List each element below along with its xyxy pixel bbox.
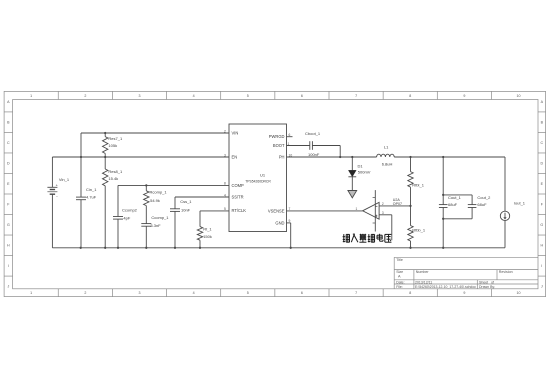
svg-text:Size: Size: [396, 270, 403, 274]
svg-text:Rt_1: Rt_1: [203, 226, 212, 231]
svg-text:G: G: [540, 223, 543, 227]
capacitor Ccomp_1 3.3nF: [141, 215, 169, 248]
svg-text:Iout_1: Iout_1: [514, 201, 526, 206]
U1 pin name EN: [232, 155, 238, 160]
wire RT/CLK net: [200, 211, 229, 227]
svg-text:Css_1: Css_1: [180, 199, 192, 204]
U2A output pin number 1: [356, 207, 358, 211]
wire PH net: [287, 156, 377, 158]
U1 pin name PH: [279, 155, 285, 160]
svg-text:1: 1: [356, 207, 358, 211]
svg-text:2013/12/11: 2013/12/11: [415, 280, 432, 284]
svg-text:54.9k: 54.9k: [150, 198, 160, 203]
wire VIN net top: [81, 133, 229, 157]
wire EN net: [52, 156, 229, 158]
svg-text:C: C: [7, 141, 10, 145]
svg-text:VIN: VIN: [232, 131, 239, 136]
svg-text:3.3nF: 3.3nF: [150, 223, 161, 228]
svg-text:RT/CLK: RT/CLK: [232, 208, 247, 213]
op-amp U2A OP07: [363, 190, 402, 231]
capacitor Cboot_1 100nF: [287, 131, 341, 157]
svg-text:Drawn By:: Drawn By:: [479, 285, 495, 289]
svg-text:2: 2: [382, 202, 384, 206]
svg-text:D: D: [7, 162, 10, 166]
U1 pin number 4: [224, 193, 226, 197]
svg-text:3: 3: [138, 291, 140, 295]
svg-text:Date:: Date:: [396, 280, 404, 284]
U1 pin number 6: [289, 133, 291, 137]
U1 pin number 8: [224, 182, 226, 186]
resistor Rcomp_1 54.9k: [144, 185, 168, 223]
resistor Rt_1 150k: [197, 226, 212, 247]
junction node EN/Cin: [80, 156, 82, 158]
U1 pin name VIN: [232, 131, 239, 136]
capacitor Cout_2 68uF: [443, 195, 491, 219]
svg-text:9: 9: [463, 291, 465, 295]
svg-text:H: H: [540, 244, 543, 248]
net label 输入基准电压 (input reference voltage): [343, 234, 392, 242]
svg-text:Sheet of: Sheet of: [479, 280, 494, 284]
svg-text:7: 7: [289, 207, 291, 211]
sheet border frame: [4, 91, 546, 296]
U1 pin name PWRGD: [269, 134, 285, 139]
wire VSENSE net to op-amp: [287, 210, 363, 212]
svg-text:Cout_1: Cout_1: [448, 195, 462, 200]
svg-text:Title: Title: [396, 258, 403, 262]
junction on ground rail at Rt: [199, 247, 201, 249]
svg-text:3: 3: [138, 94, 140, 98]
resistor Res8_1 15.4k: [103, 157, 123, 248]
U1 pin number 10: [289, 153, 293, 157]
svg-text:500mV: 500mV: [358, 169, 371, 174]
svg-text:68uF: 68uF: [448, 202, 458, 207]
U1 pin number 5: [224, 207, 226, 211]
resistor Res7_1 105k: [103, 133, 123, 157]
op IC U1 TPS54260DRCR body: [229, 124, 287, 232]
power ground symbol below D1: [348, 191, 357, 198]
svg-text:4: 4: [193, 94, 195, 98]
U1 pin number 1: [288, 142, 290, 146]
svg-text:100nF: 100nF: [308, 152, 320, 157]
svg-text:Ccomp_1: Ccomp_1: [151, 215, 169, 220]
resistor Rfbt_1: [408, 157, 425, 206]
wire Vout net: [394, 156, 505, 158]
svg-text:File:: File:: [396, 285, 403, 289]
junction on ground rail at Cout: [442, 247, 444, 249]
svg-text:Revision: Revision: [499, 270, 513, 274]
svg-text:Rcomp_1: Rcomp_1: [150, 189, 168, 194]
U1 pin name GND: [275, 220, 284, 225]
svg-text:SS/TR: SS/TR: [232, 195, 244, 200]
svg-text:Cout_2: Cout_2: [477, 195, 491, 200]
svg-text:TPS54260DRCR: TPS54260DRCR: [245, 179, 271, 184]
junction node Cout2 bottom: [442, 218, 444, 220]
junction node EN/Res8: [104, 156, 106, 158]
U1 pin name BOOT: [273, 143, 285, 148]
svg-text:BOOT: BOOT: [273, 143, 285, 148]
junction node VIN/Res7: [104, 132, 106, 134]
junction node Cout2 top: [442, 194, 444, 196]
svg-text:D1: D1: [358, 163, 364, 168]
svg-text:D: D: [540, 162, 543, 166]
wire U2A pin2 to feedback node: [379, 205, 410, 207]
U1 pin name VSENSE: [268, 208, 285, 213]
capacitor Cout_1 68uF: [439, 157, 462, 248]
svg-text:3: 3: [382, 211, 384, 215]
svg-text:Res8_1: Res8_1: [108, 169, 123, 174]
svg-text:Ccomp2: Ccomp2: [122, 208, 138, 213]
current source Iout_1: [500, 157, 525, 248]
junction on ground rail at Res8: [104, 247, 106, 249]
svg-text:150k: 150k: [203, 234, 212, 239]
U2A pin 8 tick: [373, 197, 376, 199]
junction node Vout/Cout: [442, 156, 444, 158]
junction on ground rail at Ccomp_1: [145, 247, 147, 249]
wire U2A pin3 to reference label: [379, 215, 392, 241]
wire U1 GND pin to rail: [287, 223, 291, 248]
U1 pin number 9: [289, 219, 291, 223]
junction on ground rail at Ccomp2: [117, 247, 119, 249]
svg-text:7: 7: [355, 291, 357, 295]
junction node COMP/Rcomp: [145, 184, 147, 186]
U1 pin number 3: [224, 153, 226, 157]
junction node feedback divider: [409, 205, 411, 207]
wire SS/TR net: [175, 197, 229, 209]
junction node PH/D1: [351, 156, 353, 158]
svg-text:L1: L1: [384, 145, 389, 150]
svg-text:5: 5: [247, 291, 249, 295]
capacitor Cin_1 4.7uF: [76, 157, 97, 248]
svg-text:2: 2: [84, 291, 86, 295]
svg-text:Vin_1: Vin_1: [59, 177, 70, 182]
svg-text:1: 1: [30, 291, 32, 295]
svg-text:Number: Number: [416, 270, 430, 274]
svg-text:7: 7: [355, 94, 357, 98]
svg-text:PWRGD: PWRGD: [269, 134, 285, 139]
svg-text:G: G: [7, 223, 10, 227]
svg-text:10: 10: [517, 291, 521, 295]
svg-text:10: 10: [517, 94, 521, 98]
svg-text:Res7_1: Res7_1: [108, 136, 123, 141]
svg-text:J: J: [7, 285, 9, 289]
wire ground rail: [52, 247, 505, 249]
svg-text:8: 8: [409, 291, 411, 295]
svg-text:I: I: [8, 264, 9, 268]
capacitor Css_1 10nF: [170, 199, 192, 248]
svg-text:U1: U1: [260, 172, 266, 177]
svg-text:Cin_1: Cin_1: [86, 187, 97, 192]
svg-text:J: J: [541, 285, 543, 289]
junction on ground rail at Rfbb: [409, 247, 411, 249]
U1 pin name RT/CLK: [232, 208, 247, 213]
svg-text:6.8uH: 6.8uH: [382, 161, 393, 166]
svg-text:5: 5: [224, 207, 226, 211]
svg-text:5: 5: [247, 94, 249, 98]
svg-text:Rfbb_1: Rfbb_1: [412, 227, 426, 232]
svg-text:8: 8: [409, 94, 411, 98]
svg-text:COMP: COMP: [232, 183, 245, 188]
svg-text:6: 6: [301, 291, 303, 295]
svg-text:E:\54260\2013-12-10_17-27-40\.: E:\54260\2013-12-10_17-27-40\.schdoc: [415, 285, 476, 289]
svg-text:10nF: 10nF: [181, 207, 191, 212]
svg-text:4: 4: [193, 291, 195, 295]
inductor L1 6.8uH: [377, 145, 395, 167]
svg-text:9: 9: [463, 94, 465, 98]
svg-text:Cboot_1: Cboot_1: [305, 131, 321, 136]
U1 pin name COMP: [232, 183, 245, 188]
diode D1 500mV: [348, 157, 370, 191]
title block: [394, 257, 538, 289]
svg-text:C: C: [540, 141, 543, 145]
U1 pin number 2: [224, 129, 226, 133]
svg-text:68uF: 68uF: [477, 202, 487, 207]
U2A pin number 2: [382, 202, 384, 206]
capacitor Ccomp2 4pF: [113, 208, 138, 248]
svg-text:105k: 105k: [108, 143, 117, 148]
svg-text:2: 2: [84, 94, 86, 98]
U1 PWRGD pin stub: [287, 136, 293, 138]
svg-text:H: H: [7, 244, 10, 248]
svg-text:4pF: 4pF: [123, 216, 130, 221]
junction on ground rail at Css: [174, 247, 176, 249]
wire COMP net: [118, 185, 229, 216]
junction on ground rail at Cin: [80, 247, 82, 249]
svg-text:OP07: OP07: [393, 202, 402, 206]
svg-text:I: I: [541, 264, 542, 268]
svg-text:15.4k: 15.4k: [108, 176, 118, 181]
junction node PH/Cboot: [339, 156, 341, 158]
junction on ground rail at GND pin: [290, 247, 292, 249]
U1 pin number 7: [289, 207, 291, 211]
battery Vin_1: [47, 157, 69, 248]
U2A pin number 3: [382, 211, 384, 215]
svg-text:VSENSE: VSENSE: [268, 208, 285, 213]
svg-text:EN: EN: [232, 155, 238, 160]
U2A pin 4 tick: [373, 222, 376, 224]
junction node Vout/Rfbt: [409, 156, 411, 158]
svg-text:GND: GND: [275, 220, 284, 225]
svg-text:Rfbt_1: Rfbt_1: [412, 182, 425, 187]
resistor Rfbb_1: [408, 206, 426, 248]
svg-text:6: 6: [301, 94, 303, 98]
svg-text:4.7uF: 4.7uF: [86, 195, 97, 200]
svg-text:PH: PH: [279, 155, 285, 160]
U1 pin name SS/TR: [232, 195, 244, 200]
svg-text:1: 1: [30, 94, 32, 98]
